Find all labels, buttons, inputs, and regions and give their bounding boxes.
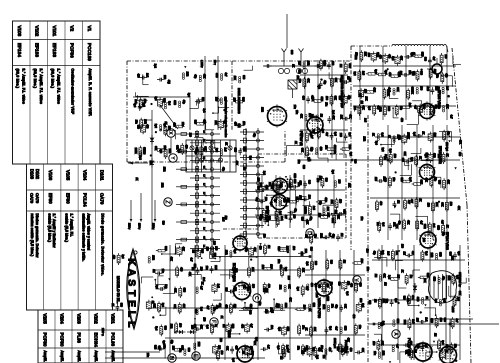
svg-text:25u: 25u	[297, 160, 300, 165]
svg-text:100: 100	[419, 86, 422, 91]
svg-text:Amplif. y salida: Amplif. y salida	[60, 351, 64, 363]
svg-text:1.° Amplif. F.I.: 1.° Amplif. F.I.	[69, 214, 73, 237]
coil L50	[378, 322, 380, 329]
svg-text:470: 470	[445, 73, 448, 78]
svg-text:SK6: SK6	[231, 324, 234, 329]
svg-text:1n5: 1n5	[412, 319, 415, 324]
svg-text:330: 330	[399, 106, 402, 111]
resistor R71	[176, 266, 179, 278]
svg-text:2M2: 2M2	[430, 253, 433, 258]
resistor R21	[375, 200, 378, 212]
resistor R47	[333, 213, 336, 225]
svg-text:SK6: SK6	[183, 288, 186, 293]
svg-text:220: 220	[163, 75, 166, 80]
svg-text:PCL86: PCL86	[110, 333, 115, 347]
coil L24	[160, 125, 162, 132]
svg-text:220: 220	[214, 246, 217, 251]
coil L60	[323, 208, 325, 215]
svg-text:820: 820	[194, 120, 197, 125]
svg-text:470: 470	[193, 324, 196, 329]
svg-text:68K: 68K	[152, 303, 155, 308]
resistor R16	[429, 68, 432, 80]
svg-text:2M2: 2M2	[161, 183, 164, 188]
svg-text:47K: 47K	[289, 297, 292, 302]
svg-text:L: L	[125, 321, 136, 327]
coil L15	[276, 184, 278, 191]
svg-text:1M: 1M	[267, 245, 270, 248]
svg-text:4n7: 4n7	[284, 215, 287, 220]
svg-text:(38,9 Mcs.): (38,9 Mcs.)	[51, 69, 55, 89]
node H	[168, 354, 176, 362]
resistor R68	[156, 249, 167, 252]
svg-text:6p8: 6p8	[162, 340, 165, 345]
capacitor C38	[264, 310, 271, 314]
lower mid wires	[150, 245, 310, 360]
coil L6	[416, 87, 418, 94]
capacitor C2	[402, 73, 409, 77]
svg-text:25u: 25u	[293, 105, 296, 110]
resistor R53	[317, 127, 320, 139]
coil L1	[359, 88, 364, 99]
resistor R93	[302, 344, 305, 356]
svg-text:470: 470	[300, 350, 303, 355]
svg-text:2M2: 2M2	[288, 183, 291, 188]
svg-text:10K: 10K	[446, 104, 449, 109]
svg-text:V105: V105	[65, 170, 70, 181]
svg-text:4n7: 4n7	[432, 57, 435, 62]
svg-text:1K: 1K	[201, 282, 204, 285]
coil L12	[402, 134, 407, 145]
coil L29	[220, 98, 222, 105]
svg-text:2M2: 2M2	[423, 224, 426, 229]
svg-text:D103: D103	[30, 169, 35, 180]
svg-text:SK6: SK6	[387, 106, 390, 111]
svg-text:1K: 1K	[224, 142, 227, 145]
coil L43	[248, 246, 253, 257]
svg-text:4n7: 4n7	[450, 115, 453, 120]
resistor R55	[330, 94, 333, 106]
svg-text:150: 150	[206, 247, 209, 252]
capacitor C20	[327, 116, 331, 123]
svg-text:10K: 10K	[392, 222, 395, 227]
svg-text:150: 150	[316, 178, 319, 183]
svg-text:5p6: 5p6	[384, 70, 387, 75]
svg-text:V104: V104	[83, 170, 88, 181]
sound section wires	[255, 175, 345, 228]
svg-text:2p2: 2p2	[410, 157, 413, 162]
svg-text:1K: 1K	[151, 301, 154, 304]
svg-text:68K: 68K	[174, 288, 177, 293]
resistor R113	[309, 204, 312, 216]
coil L16	[279, 200, 281, 207]
svg-text:1M: 1M	[339, 64, 342, 67]
svg-text:1n5: 1n5	[222, 217, 225, 222]
svg-text:2p2: 2p2	[422, 105, 425, 110]
svg-text:V102: V102	[35, 26, 40, 37]
resistor R64	[181, 143, 184, 155]
tube V105	[272, 176, 289, 195]
resistor R50	[306, 146, 309, 158]
svg-text:100: 100	[307, 195, 310, 200]
resistor R123	[354, 323, 357, 335]
resistor R57	[344, 62, 347, 74]
svg-text:220v: 220v	[127, 223, 131, 230]
svg-text:220: 220	[188, 133, 191, 138]
capacitor C18	[319, 81, 323, 88]
svg-text:1K: 1K	[294, 141, 297, 144]
svg-text:25u: 25u	[454, 344, 457, 349]
coil L38	[212, 283, 217, 294]
resistor R5	[365, 91, 376, 94]
svg-text:47p: 47p	[202, 119, 205, 124]
svg-text:820: 820	[338, 96, 341, 101]
parts table 2 (D101-D103)	[27, 164, 113, 310]
svg-text:100: 100	[367, 53, 370, 58]
svg-text:47p: 47p	[335, 304, 338, 309]
svg-text:150: 150	[262, 234, 265, 239]
bottom bus	[105, 352, 265, 358]
svg-text:47K: 47K	[182, 304, 185, 309]
svg-text:1n5: 1n5	[217, 284, 220, 289]
svg-text:1n5: 1n5	[361, 303, 364, 308]
svg-text:2M2: 2M2	[398, 135, 401, 140]
tube V205	[315, 278, 333, 298]
svg-text:47p: 47p	[170, 340, 173, 345]
tuner wiring	[133, 97, 190, 230]
svg-text:2p2: 2p2	[312, 129, 315, 134]
svg-text:330: 330	[256, 186, 259, 191]
svg-text:1M: 1M	[152, 269, 155, 272]
svg-text:280v: 280v	[151, 223, 155, 230]
svg-text:150: 150	[374, 177, 377, 182]
svg-text:1K: 1K	[445, 225, 448, 228]
tube V104	[232, 234, 248, 252]
capacitor C21	[330, 133, 334, 140]
resistor R116	[310, 326, 313, 338]
resistor R111	[262, 208, 265, 220]
coil L18	[303, 62, 305, 69]
svg-text:1n5: 1n5	[202, 277, 205, 282]
svg-text:SK6: SK6	[437, 225, 440, 230]
coil L73	[139, 152, 141, 159]
coil L21	[316, 148, 318, 155]
capacitor C54	[336, 234, 340, 241]
svg-text:470: 470	[302, 96, 305, 101]
svg-text:330: 330	[242, 75, 245, 80]
coil L64	[327, 305, 329, 312]
svg-text:4n7: 4n7	[455, 319, 458, 324]
svg-text:47p: 47p	[319, 201, 322, 206]
svg-text:2M2: 2M2	[322, 304, 325, 309]
capacitor C26	[157, 78, 164, 82]
tube V101	[419, 101, 436, 120]
capacitor C1	[404, 55, 411, 59]
svg-text:47p: 47p	[222, 167, 225, 172]
svg-text:4n7: 4n7	[189, 258, 192, 263]
resistor R96	[377, 339, 380, 351]
resistor R19	[441, 72, 444, 84]
deflection yoke	[429, 271, 457, 303]
svg-text:150: 150	[449, 202, 452, 207]
coil L26	[179, 101, 181, 108]
svg-text:SK6: SK6	[193, 264, 196, 269]
svg-text:10K: 10K	[319, 176, 322, 181]
svg-text:47K: 47K	[299, 114, 302, 119]
coil L8	[442, 87, 444, 94]
svg-text:470: 470	[310, 283, 313, 288]
capacitor C11	[258, 200, 265, 204]
svg-text:150: 150	[256, 178, 259, 183]
svg-text:10K: 10K	[340, 115, 343, 120]
svg-text:220: 220	[338, 180, 341, 185]
VHF tuner dashed box	[127, 61, 350, 162]
svg-text:1K: 1K	[232, 305, 235, 308]
svg-text:1n5: 1n5	[312, 206, 315, 211]
svg-text:150: 150	[299, 195, 302, 200]
svg-text:68K: 68K	[334, 78, 337, 83]
svg-text:5p6: 5p6	[233, 249, 236, 254]
svg-text:68K: 68K	[405, 350, 408, 355]
svg-text:470: 470	[324, 197, 327, 202]
capacitor C13	[289, 215, 293, 222]
svg-text:68K: 68K	[279, 265, 282, 270]
svg-text:1n5: 1n5	[142, 103, 145, 108]
svg-text:470: 470	[185, 145, 188, 150]
svg-text:820: 820	[225, 288, 228, 293]
svg-text:2M2: 2M2	[163, 167, 166, 172]
svg-text:1n5: 1n5	[280, 216, 283, 221]
resistor R28	[415, 155, 418, 167]
svg-text:47K: 47K	[383, 273, 386, 278]
capacitor C44	[403, 343, 410, 347]
svg-text:1K: 1K	[250, 346, 253, 349]
svg-text:47K: 47K	[249, 304, 252, 309]
resistor R81	[248, 283, 251, 295]
svg-text:47K: 47K	[218, 303, 221, 308]
svg-text:100: 100	[252, 284, 255, 289]
node E	[192, 352, 200, 360]
coil L66	[342, 280, 347, 291]
svg-text:OA79: OA79	[100, 193, 105, 205]
svg-text:47p: 47p	[323, 80, 326, 85]
resistor R7	[376, 73, 387, 76]
svg-text:68K: 68K	[300, 252, 303, 257]
svg-text:25u: 25u	[360, 217, 363, 222]
coil L67	[340, 327, 342, 334]
coil L34	[196, 248, 201, 259]
resistor R73	[178, 302, 181, 314]
svg-text:10K: 10K	[395, 251, 398, 256]
svg-text:47K: 47K	[243, 285, 246, 290]
svg-text:47p: 47p	[244, 248, 247, 253]
IF box ladder wires	[353, 46, 456, 120]
svg-text:SK6: SK6	[396, 319, 399, 324]
svg-text:1K: 1K	[401, 270, 404, 273]
mid-right vertical wires	[370, 125, 460, 240]
svg-text:25u: 25u	[407, 132, 410, 137]
svg-text:2p2: 2p2	[215, 148, 218, 153]
svg-text:5p6: 5p6	[374, 141, 377, 146]
svg-text:2p2: 2p2	[317, 85, 320, 90]
B+ bus top	[300, 159, 460, 162]
resistor R98	[389, 278, 400, 281]
resistor R25	[401, 180, 412, 183]
svg-text:6p8: 6p8	[441, 340, 444, 345]
svg-text:470: 470	[379, 55, 382, 60]
svg-text:6p8: 6p8	[232, 358, 235, 363]
coil L72	[141, 124, 146, 135]
resistor R17	[431, 103, 434, 115]
resistor R35	[443, 130, 446, 142]
svg-text:Amplif. video y control: Amplif. video y control	[87, 214, 91, 251]
svg-text:PCF80: PCF80	[59, 333, 64, 348]
capacitor C34	[194, 327, 201, 331]
UHF bank chain	[240, 128, 264, 238]
resistor R84	[262, 268, 273, 271]
svg-text:150: 150	[339, 199, 342, 204]
svg-text:4n7: 4n7	[410, 199, 413, 204]
svg-text:330: 330	[443, 318, 446, 323]
resistor R72	[179, 286, 182, 298]
coil L37	[194, 343, 196, 350]
svg-text:28 v: 28 v	[213, 60, 216, 65]
svg-text:470: 470	[379, 201, 382, 206]
resistor R95	[378, 297, 381, 309]
svg-text:4n7: 4n7	[335, 326, 338, 331]
resistor R65	[195, 123, 206, 126]
svg-text:1n5: 1n5	[386, 251, 389, 256]
resistor R88	[282, 344, 285, 356]
svg-text:5p6: 5p6	[177, 149, 180, 154]
resistor R100	[407, 294, 410, 306]
svg-text:4n7: 4n7	[199, 286, 202, 291]
svg-text:25u: 25u	[329, 282, 332, 287]
svg-text:T: T	[125, 290, 136, 297]
svg-text:SK6: SK6	[293, 179, 296, 184]
coil L49	[379, 275, 381, 282]
svg-text:10K: 10K	[301, 268, 304, 273]
svg-text:4n7: 4n7	[328, 233, 331, 238]
svg-text:4n7: 4n7	[395, 344, 398, 349]
resistor R69	[158, 301, 161, 313]
svg-text:47K: 47K	[170, 257, 173, 262]
svg-text:MODELO 59 RL.: MODELO 59 RL.	[116, 276, 120, 304]
capacitor C3	[428, 57, 432, 64]
svg-text:SK6: SK6	[433, 153, 436, 158]
svg-text:1M: 1M	[340, 233, 343, 236]
svg-text:220 v.: 220 v.	[101, 328, 105, 336]
svg-text:68K: 68K	[311, 97, 314, 102]
svg-text:47p: 47p	[442, 232, 445, 237]
resistor R120	[341, 345, 344, 357]
resistor R2	[358, 70, 361, 82]
svg-text:150: 150	[372, 341, 375, 346]
svg-text:5p6: 5p6	[277, 327, 280, 332]
capacitor C42	[390, 299, 394, 306]
resistor R27	[403, 219, 406, 231]
svg-text:4n7: 4n7	[310, 135, 313, 140]
resistor R78	[211, 323, 214, 335]
svg-text:1K: 1K	[292, 64, 295, 67]
svg-text:100: 100	[401, 244, 404, 249]
svg-text:25u: 25u	[297, 182, 300, 187]
svg-text:1K: 1K	[388, 135, 391, 138]
svg-text:PCF80: PCF80	[42, 333, 47, 348]
svg-text:2M2: 2M2	[319, 233, 322, 238]
svg-text:Oscilador-mezclador VHF: Oscilador-mezclador VHF	[70, 69, 74, 115]
svg-text:470: 470	[388, 72, 391, 77]
svg-text:25u: 25u	[313, 234, 316, 239]
svg-text:4n7: 4n7	[414, 105, 417, 110]
svg-text:6p8: 6p8	[456, 275, 459, 280]
svg-text:100: 100	[308, 113, 311, 118]
svg-text:5p6: 5p6	[133, 103, 136, 108]
svg-text:6p8: 6p8	[345, 291, 348, 296]
resistor R122	[355, 281, 358, 293]
svg-text:1K: 1K	[304, 328, 307, 331]
resistor R107	[453, 295, 456, 307]
svg-text:330: 330	[458, 152, 461, 157]
svg-text:330: 330	[423, 57, 426, 62]
svg-text:2p2: 2p2	[388, 275, 391, 280]
svg-text:47K: 47K	[333, 145, 336, 150]
svg-text:47K: 47K	[425, 178, 428, 183]
svg-text:820: 820	[368, 300, 371, 305]
svg-text:1K: 1K	[135, 178, 138, 181]
coil L27	[199, 75, 201, 82]
svg-text:820: 820	[143, 150, 146, 155]
svg-text:68K: 68K	[173, 304, 176, 309]
svg-text:1M: 1M	[334, 210, 337, 213]
coil L47	[281, 304, 283, 311]
svg-text:47K: 47K	[348, 114, 351, 119]
svg-text:PCF86: PCF86	[70, 43, 75, 58]
svg-text:47K: 47K	[199, 325, 202, 330]
svg-text:5p6: 5p6	[159, 149, 162, 154]
svg-text:5p6: 5p6	[391, 56, 394, 61]
coil L11	[393, 136, 395, 143]
resistor R38	[445, 200, 448, 212]
coil L46	[284, 285, 286, 292]
svg-text:1M: 1M	[397, 275, 400, 278]
svg-text:V205: V205	[42, 314, 47, 325]
resistor R90	[301, 285, 304, 297]
svg-text:150: 150	[219, 338, 222, 343]
resistor R76	[211, 245, 214, 257]
coil L10	[377, 134, 379, 141]
svg-text:47K: 47K	[307, 78, 310, 83]
svg-text:6p8: 6p8	[380, 322, 383, 327]
coil L30	[218, 119, 223, 130]
svg-text:470: 470	[349, 348, 352, 353]
220v bottom label	[101, 328, 105, 336]
coil L28	[221, 74, 223, 81]
svg-text:ECH84 V202: ECH84 V202	[232, 263, 236, 282]
svg-text:1n5: 1n5	[424, 317, 427, 322]
svg-text:68K: 68K	[343, 304, 346, 309]
coil L42	[226, 323, 231, 334]
svg-text:47K: 47K	[188, 272, 191, 277]
svg-text:68K: 68K	[396, 87, 399, 92]
svg-text:100: 100	[365, 249, 368, 254]
svg-text:Amplif. y salida: Amplif. y salida	[43, 351, 47, 363]
svg-text:330: 330	[187, 348, 190, 353]
svg-text:300: 300	[290, 50, 294, 55]
coil L63	[307, 346, 312, 357]
svg-text:V205a PCF80: V205a PCF80	[317, 298, 321, 318]
coil L23	[158, 97, 163, 108]
resistor R86	[278, 249, 289, 252]
